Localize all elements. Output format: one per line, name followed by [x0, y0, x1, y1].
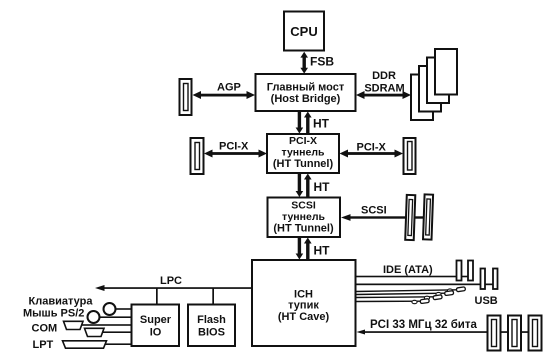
svg-text:Мышь PS/2: Мышь PS/2: [23, 308, 84, 320]
svg-text:COM: COM: [32, 323, 58, 335]
Host Bridge box: [256, 74, 356, 111]
svg-text:Главный мост: Главный мост: [267, 82, 345, 94]
svg-text:LPT: LPT: [33, 339, 54, 351]
keyboard PS/2 connector (circle): [104, 303, 116, 315]
wire PCI (arrow into ICH): [357, 330, 542, 335]
IDE connector 2: [468, 261, 473, 281]
wire HT pair 3 (SCSI tunnel to ICH): [296, 237, 312, 260]
PCI-X slot left: [191, 138, 204, 174]
svg-text:SCSI: SCSI: [361, 205, 387, 217]
SCSI connector 1: [405, 195, 415, 240]
wire LPT line: [103, 343, 132, 345]
svg-text:LPC: LPC: [160, 275, 182, 287]
SCSI tunnel box: [268, 198, 341, 238]
svg-text:PCI-X: PCI-X: [219, 141, 249, 153]
IDE connector 1: [457, 261, 462, 281]
PCI slot 2: [508, 316, 521, 351]
wire COM1 line: [80, 324, 132, 326]
wire mouse line: [97, 316, 132, 318]
svg-text:Flash: Flash: [197, 314, 226, 326]
wire PCI-X right (double arrow): [340, 150, 404, 158]
PCI-X tunnel box: [267, 134, 339, 173]
svg-text:HT: HT: [314, 244, 331, 258]
wire USB line: [356, 284, 498, 286]
svg-text:DDR: DDR: [372, 70, 396, 82]
svg-text:PCI-X: PCI-X: [289, 135, 317, 147]
PCI-X slot right: [404, 138, 416, 174]
LPT connector (trapezoid): [63, 341, 107, 348]
wire keyboard line: [112, 308, 132, 310]
wire cable 1: [356, 287, 466, 292]
wire stub LPC to Super IO: [156, 288, 158, 305]
wire PCI-X left (double arrow): [204, 150, 267, 158]
USB connector 2: [493, 269, 498, 290]
svg-text:IO: IO: [150, 327, 162, 339]
AGP slot connector: [180, 79, 192, 115]
wire HT pair 1 (Host Bridge to PCI-X tunnel): [296, 111, 312, 134]
PCI slot 3: [529, 316, 542, 351]
svg-text:тупик: тупик: [288, 300, 319, 312]
svg-text:SCSI: SCSI: [291, 200, 316, 212]
wire stub LPC to Flash BIOS: [212, 288, 214, 305]
svg-text:(Host Bridge): (Host Bridge): [271, 93, 341, 105]
svg-text:HT: HT: [313, 117, 330, 131]
svg-text:BIOS: BIOS: [198, 327, 225, 339]
Flash BIOS box: [188, 305, 235, 347]
mouse PS/2 connector (circle): [88, 311, 100, 323]
wire HT pair 2 (PCI-X tunnel to SCSI tunnel): [296, 173, 312, 198]
PCI slot 1: [488, 316, 501, 351]
svg-text:CPU: CPU: [290, 24, 317, 39]
svg-text:FSB: FSB: [310, 55, 334, 69]
COM2 connector (trapezoid): [85, 328, 105, 336]
ICH box: [252, 260, 356, 346]
wire DDR SDRAM (double arrow): [356, 91, 411, 99]
wire IDE line: [356, 276, 473, 278]
wire SCSI (arrow into SCSI tunnel): [341, 214, 425, 221]
DDR SDRAM module stack: [411, 49, 457, 120]
label DDR SDRAM: [364, 70, 404, 95]
wire AGP (double arrow): [193, 91, 256, 99]
svg-text:туннель: туннель: [282, 211, 325, 223]
wire COM2 line: [101, 331, 132, 333]
svg-text:PCI 33 МГц 32 бита: PCI 33 МГц 32 бита: [370, 319, 478, 331]
svg-text:Super: Super: [140, 314, 172, 326]
svg-text:HT: HT: [314, 180, 331, 194]
svg-text:(HT Cave): (HT Cave): [278, 311, 330, 323]
Super IO box: [132, 305, 180, 347]
COM1 connector (trapezoid): [64, 321, 84, 329]
svg-text:Клавиатура: Клавиатура: [29, 296, 94, 308]
svg-text:AGP: AGP: [217, 82, 241, 94]
CPU box: [284, 12, 324, 51]
wire FSB (double arrow CPU to Host Bridge): [300, 52, 308, 74]
wire cable 2: [356, 291, 454, 296]
wire cable 3: [356, 295, 443, 300]
svg-text:туннель: туннель: [282, 147, 325, 159]
wire LPC (arrow to left): [95, 285, 252, 291]
wire cable 4: [356, 299, 430, 304]
svg-text:(HT Tunnel): (HT Tunnel): [273, 158, 334, 170]
svg-text:USB: USB: [475, 295, 498, 307]
USB connector 1: [481, 269, 486, 290]
svg-text:PCI-X: PCI-X: [357, 142, 387, 154]
svg-text:(HT Tunnel): (HT Tunnel): [273, 223, 334, 235]
SCSI connector 2: [423, 194, 433, 239]
svg-text:SDRAM: SDRAM: [364, 83, 404, 95]
svg-text:IDE (ATA): IDE (ATA): [383, 264, 433, 276]
